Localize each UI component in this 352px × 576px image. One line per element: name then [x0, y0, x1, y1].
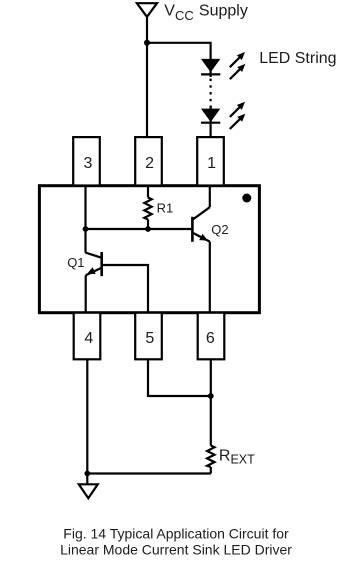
svg-text:4: 4	[84, 330, 93, 347]
svg-text:1: 1	[207, 155, 216, 172]
svg-text:LED String: LED String	[259, 50, 336, 67]
svg-text:5: 5	[145, 330, 154, 347]
svg-text:Q2: Q2	[211, 222, 228, 237]
svg-text:6: 6	[206, 330, 215, 347]
svg-text:2: 2	[145, 155, 154, 172]
svg-text:Q1: Q1	[67, 255, 84, 270]
svg-text:Fig. 14 Typical Application Ci: Fig. 14 Typical Application Circuit for	[63, 526, 289, 542]
svg-text:3: 3	[83, 155, 92, 172]
svg-text:R1: R1	[157, 200, 174, 215]
svg-text:Linear Mode Current Sink LED D: Linear Mode Current Sink LED Driver	[60, 542, 292, 558]
